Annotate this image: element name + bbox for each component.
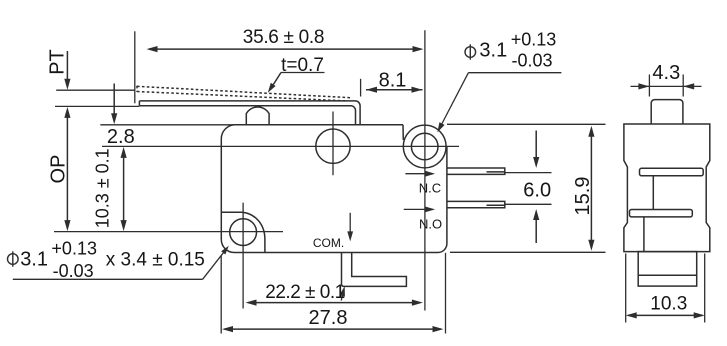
lever left end cap xyxy=(138,101,140,106)
35.6 left extension line xyxy=(134,31,136,103)
t=0.7 leader line xyxy=(281,72,325,74)
PT upper reference line xyxy=(56,89,135,91)
phi symbol top-right xyxy=(465,47,476,58)
6.0 upper arrow xyxy=(535,131,537,159)
side view base block xyxy=(638,252,697,287)
top-middle hole xyxy=(316,129,350,163)
svg-text:-0.03: -0.03 xyxy=(53,261,94,281)
COM terminal pin (L-shaped) xyxy=(342,253,407,287)
svg-text:35.6 ± 0.8: 35.6 ± 0.8 xyxy=(243,27,324,48)
svg-text:+0.13: +0.13 xyxy=(511,29,557,49)
plunger button bump xyxy=(246,107,269,125)
10.3 dimension line with arrows xyxy=(628,314,703,316)
side view connector line A xyxy=(652,176,654,210)
27.8 left extension line xyxy=(220,256,222,334)
svg-text:PT: PT xyxy=(47,49,69,75)
4.3 dimension line with outside arrows xyxy=(631,85,702,87)
15.9 dimension line with arrows xyxy=(590,129,592,249)
6.0 lower arrow xyxy=(535,219,537,243)
body top-right corner jog xyxy=(402,125,404,140)
svg-text:15.9: 15.9 xyxy=(572,177,594,216)
svg-text:10.3 ± 0.1: 10.3 ± 0.1 xyxy=(93,148,113,228)
top-middle hole vertical centerline xyxy=(332,112,334,176)
27.8 right extension line xyxy=(445,253,447,334)
leader line to top-right hole xyxy=(468,72,561,74)
OP dimension arrows xyxy=(66,110,68,228)
6.0 lower extension line from N.O pin xyxy=(505,203,552,205)
15.9 bottom extension line xyxy=(450,251,606,253)
lever pressed reference line xyxy=(55,105,139,107)
side view button xyxy=(651,100,683,124)
top-right mounting hole (phi 3.1) xyxy=(411,133,438,160)
svg-text:6.0: 6.0 xyxy=(523,179,551,201)
27.8 dimension line with arrows xyxy=(225,328,442,330)
svg-text:8.1: 8.1 xyxy=(379,69,407,91)
10.3 +/-0.1 dimension arrows xyxy=(123,150,125,228)
10.3 extension lines (side view) xyxy=(625,254,627,323)
COM indicator arrow xyxy=(349,213,351,234)
bottom-left hole vertical centerline / 22.2 extension xyxy=(242,203,244,309)
4.3 extension lines xyxy=(648,75,650,97)
6.0 upper extension line from N.C pin xyxy=(505,172,552,174)
svg-text:3.1: 3.1 xyxy=(479,39,507,61)
svg-text:22.2 ± 0.1: 22.2 ± 0.1 xyxy=(265,282,344,303)
15.9 top extension line xyxy=(447,123,606,125)
8.1 dimension line with arrows xyxy=(366,89,423,91)
svg-text:4.3: 4.3 xyxy=(652,62,680,84)
lever free position lower dashed line xyxy=(137,92,346,101)
hole centerline horizontal (top holes) xyxy=(102,145,459,147)
N.O terminal pin xyxy=(447,201,505,207)
leader line to bottom-left hole xyxy=(13,278,203,280)
svg-text:COM.: COM. xyxy=(313,236,344,250)
lever free position upper dashed line xyxy=(137,86,350,97)
svg-text:N.C: N.C xyxy=(419,181,441,196)
35.6 dimension line with arrows xyxy=(149,48,421,50)
lever arm solid inner edge xyxy=(139,106,355,125)
bottom hole horizontal centerline / OP reference line xyxy=(54,231,283,233)
switch body outline (front view) xyxy=(221,125,447,253)
long vertical centerline / extension through top-right hole xyxy=(424,30,426,310)
svg-text:27.8: 27.8 xyxy=(309,307,348,329)
svg-text:2.8: 2.8 xyxy=(107,126,135,148)
bottom-left mounting hole (phi 3.1) xyxy=(230,219,257,246)
phi symbol bottom-left xyxy=(8,254,19,265)
svg-text:x 3.4 ± 0.15: x 3.4 ± 0.15 xyxy=(106,249,205,270)
N.C indicator arrow xyxy=(405,173,427,175)
body top extension line xyxy=(100,124,235,126)
bottom-left hole boss xyxy=(221,212,265,252)
8.1 left extension line xyxy=(360,79,362,97)
COM pin leader arrow xyxy=(341,291,343,301)
side view upper tab xyxy=(640,168,704,176)
svg-text:-0.03: -0.03 xyxy=(511,51,552,71)
svg-text:3.1: 3.1 xyxy=(20,248,48,270)
svg-text:OP: OP xyxy=(48,155,70,184)
lever arm solid outer edge xyxy=(139,101,360,125)
2.8 dimension arrow xyxy=(113,84,115,116)
N.O indicator arrow xyxy=(404,208,427,210)
22.2 dimension line with arrows xyxy=(248,302,420,304)
lever free position end cap dashed xyxy=(136,86,138,92)
side view body outline xyxy=(624,124,710,252)
svg-text:N.O: N.O xyxy=(419,216,442,231)
N.C terminal pin xyxy=(447,168,505,174)
top-right pivot boss circle xyxy=(403,125,446,168)
side view lower tab xyxy=(630,210,693,217)
side view connector line B xyxy=(643,217,645,252)
svg-text:10.3: 10.3 xyxy=(650,293,687,314)
PT arrow xyxy=(66,51,68,80)
svg-text:+0.13: +0.13 xyxy=(51,238,97,258)
